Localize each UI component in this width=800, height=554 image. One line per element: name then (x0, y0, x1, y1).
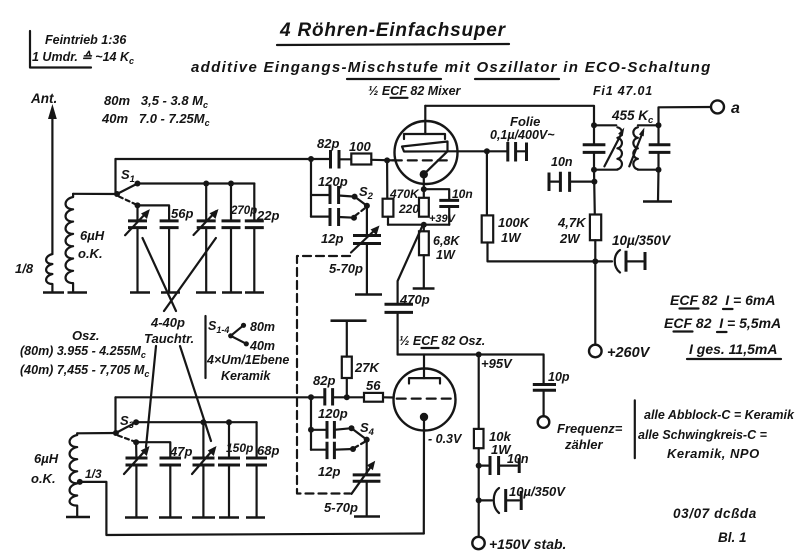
svg-text:12p: 12p (318, 464, 340, 479)
ground trimmer2 (196, 291, 216, 294)
switch S3 (113, 419, 139, 445)
wire osc cathode down (423, 417, 425, 534)
node B+ 100K (592, 258, 598, 264)
capacitor 120p osc (311, 421, 352, 439)
label Tauchtr. (144, 331, 194, 346)
title text (279, 20, 507, 41)
label 82p (317, 136, 339, 151)
label S3 (120, 413, 135, 431)
label 470p (399, 292, 430, 307)
tube V1b plate (409, 378, 440, 383)
terminal frequency counter (538, 416, 550, 428)
svg-text:6µH: 6µH (80, 228, 105, 243)
capacitor 150p (218, 458, 240, 517)
label +150V stab (489, 536, 566, 552)
ground osc trimmer2 (192, 516, 215, 519)
label 120p osc (318, 406, 348, 421)
svg-text:S2: S2 (359, 184, 374, 202)
label S4 (360, 420, 375, 438)
svg-text:+95V: +95V (481, 356, 513, 371)
svg-text:470K: 470K (389, 187, 420, 201)
tube V1a cathode (420, 151, 448, 178)
Feintrieb box text line1 (45, 33, 127, 47)
capacitor 10u/350V (595, 250, 645, 273)
tube V1b plate lead (423, 355, 425, 379)
label +260V (607, 345, 651, 361)
label 82p osc (313, 373, 335, 388)
capacitor 120p (311, 186, 355, 204)
svg-text:- 0.3V: - 0.3V (428, 432, 463, 446)
svg-text:120p: 120p (318, 174, 348, 189)
wire S2 branch vertical (310, 159, 312, 217)
IF secondary coil (633, 127, 638, 169)
svg-text:ECF 82 I = 5,5mA: ECF 82 I = 5,5mA (664, 315, 781, 331)
wire IF secondary ground (657, 170, 660, 201)
trimmer capacitor osc no1 (124, 446, 150, 517)
pointer line trimmer1 to label (143, 238, 177, 311)
resistor 100 (351, 154, 371, 165)
label a (731, 100, 740, 117)
label 68p (257, 443, 279, 458)
label 4xUm/1Ebene (206, 353, 289, 367)
node rail osc trimmer2 (200, 419, 206, 425)
svg-text:½ ECF 82 Mixer: ½ ECF 82 Mixer (368, 84, 462, 98)
label 4,7K 2W (557, 215, 587, 246)
ground 56p (161, 291, 180, 294)
svg-text:(80m) 3.955 - 4.255Mc: (80m) 3.955 - 4.255Mc (20, 344, 146, 360)
wire L1 top to S1 (73, 193, 117, 195)
svg-text:2W: 2W (559, 231, 581, 246)
label 10u stab (509, 484, 566, 499)
main top wire (116, 158, 331, 160)
ground trimmer1 (130, 291, 150, 294)
label ECF82 I=6mA (670, 292, 775, 309)
svg-text:22p: 22p (256, 208, 279, 223)
node Folie junction (484, 148, 490, 154)
tube V1a plate lead (424, 106, 426, 134)
svg-text:½ ECF 82 Osz.: ½ ECF 82 Osz. (399, 334, 485, 348)
capacitor 68p (246, 458, 267, 517)
svg-text:40m 7.0 - 7.25Mc: 40m 7.0 - 7.25Mc (101, 111, 210, 128)
node L2 tap 1/3 (77, 479, 83, 485)
IF transformer Fi1 primary cap (583, 125, 606, 169)
trimmer capacitor 4-40p no1 (125, 209, 150, 292)
terminal +150V (472, 537, 484, 549)
label 270p (230, 205, 257, 217)
svg-text:S3: S3 (120, 413, 135, 431)
label 0,1u/400V (490, 128, 555, 142)
label 1/2 ECF 82 Osz. (399, 334, 485, 348)
node 10n stab (476, 463, 482, 469)
label 12p osc (318, 464, 340, 479)
label 6uH osc (34, 451, 59, 466)
label 80m legend (250, 320, 275, 334)
svg-text:6µH: 6µH (34, 451, 59, 466)
svg-text:Osz.: Osz. (72, 328, 99, 343)
label Fi1 47.01 (593, 84, 653, 98)
wire top rail down to S1 (114, 159, 116, 194)
label 80m osc range (20, 344, 146, 360)
ground 6,8K (413, 287, 435, 290)
label S1-4 (208, 319, 229, 335)
ground 47p (159, 516, 182, 519)
IF secondary top bar (638, 122, 662, 128)
svg-text:Feintrieb 1:36: Feintrieb 1:36 (45, 33, 127, 47)
svg-text:270p: 270p (230, 205, 257, 217)
label 10k 1W (489, 429, 512, 457)
label S2 (359, 184, 374, 202)
wire plate to IF primary (425, 106, 594, 126)
dashed enclosure padder section (297, 256, 350, 494)
ground L2 (66, 516, 90, 519)
label 220 (398, 202, 419, 216)
svg-text:(40m) 7,455 - 7,705 Mc: (40m) 7,455 - 7,705 Mc (20, 363, 149, 379)
IF secondary cap (649, 125, 671, 169)
svg-text:220: 220 (398, 202, 419, 216)
label 1/8 (15, 261, 34, 276)
svg-text:10n: 10n (452, 187, 473, 201)
svg-text:0,1µ/400V~: 0,1µ/400V~ (490, 128, 555, 142)
tube V1b osc envelope (394, 369, 456, 431)
label 10n stab (507, 452, 529, 466)
IF secondary tuning arrow (629, 128, 644, 167)
ground 270p (222, 291, 242, 294)
note line3 (667, 446, 760, 461)
label o.K. osc (31, 471, 56, 486)
wire S1 40m to trimmer1 (136, 205, 138, 221)
wire B+ down (594, 261, 596, 344)
Feintrieb box text line2 (32, 50, 134, 66)
wire S3 40m to 47p (136, 442, 170, 458)
svg-text:120p: 120p (318, 406, 348, 421)
label 5-70p lower (324, 500, 358, 515)
switch S2 (351, 194, 370, 221)
tube V1a screen (402, 142, 448, 152)
svg-text:47p: 47p (169, 444, 192, 459)
svg-text:1/8: 1/8 (15, 261, 34, 276)
svg-text:1 Umdr. ≙ ~14 Kc: 1 Umdr. ≙ ~14 Kc (32, 50, 134, 66)
node 27K junction (344, 394, 350, 400)
node mixer grid (384, 157, 390, 163)
IF secondary bottom bar (638, 167, 662, 173)
svg-text:o.K.: o.K. (31, 471, 56, 486)
note line1 (644, 408, 795, 422)
svg-text:100K: 100K (498, 215, 531, 230)
label 22p (256, 208, 279, 223)
capacitor 47p (160, 458, 182, 517)
capacitor 10n IF (549, 172, 594, 192)
svg-text:10µ/350V: 10µ/350V (612, 233, 671, 248)
svg-text:1/3: 1/3 (85, 467, 102, 481)
svg-text:S1: S1 (121, 167, 135, 185)
wire S4 to trimmer (366, 440, 368, 475)
label +39V (429, 213, 457, 225)
label 470K (389, 187, 420, 201)
capacitor 12p (311, 208, 354, 226)
label 56 (366, 378, 381, 393)
label 5-70p upper (329, 261, 363, 276)
wire tap to bottom rail (80, 482, 424, 535)
label 12p (321, 231, 343, 246)
wire S3 80m rail (136, 421, 257, 423)
wire cathode tap to Folie (448, 150, 508, 152)
switch S4 (349, 425, 370, 452)
node rail C-trim2 (203, 181, 209, 187)
note line2 (638, 428, 768, 442)
tube V1b cathode (420, 413, 428, 421)
svg-text:alle Schwingkreis-C =: alle Schwingkreis-C = (638, 428, 768, 442)
label 40m legend (249, 339, 275, 353)
capacitor 10n stab (479, 456, 520, 475)
label 100 (349, 139, 371, 154)
svg-text:1W: 1W (436, 248, 456, 262)
note bar (634, 400, 636, 458)
trimmer capacitor 5-70p upper (351, 226, 381, 295)
svg-text:+150V stab.: +150V stab. (489, 536, 566, 552)
wire rail to 22p (253, 184, 255, 221)
label 1/3 tap (85, 467, 102, 481)
wire 82p to R100 (339, 158, 351, 160)
svg-text:03/07 dcßda: 03/07 dcßda (673, 506, 757, 521)
label 40m range (101, 111, 210, 128)
label 40m osc range (20, 363, 149, 379)
label 10p (548, 370, 570, 384)
wire osc grid line (116, 396, 325, 398)
svg-text:150p: 150p (226, 441, 253, 455)
resistor 10k (474, 355, 484, 538)
svg-text:ECF 82 I = 6mA: ECF 82 I = 6mA (670, 292, 775, 308)
inductor L1 6uH (66, 194, 74, 292)
ground trimmer S4 (354, 515, 380, 518)
svg-text:470p: 470p (399, 292, 430, 307)
svg-text:56p: 56p (171, 206, 193, 221)
svg-text:+39V: +39V (429, 213, 457, 225)
svg-text:10p: 10p (548, 370, 570, 384)
wire cathode down (423, 174, 425, 198)
terminal a (711, 100, 724, 113)
label 47p (169, 444, 192, 459)
label 6uH (80, 228, 105, 243)
svg-text:80m: 80m (250, 320, 275, 334)
node rail 270p (228, 181, 234, 187)
svg-text:4-40p: 4-40p (150, 315, 185, 330)
label 27K (354, 360, 380, 375)
svg-text:Folie: Folie (510, 114, 540, 129)
svg-text:100: 100 (349, 139, 371, 154)
label 56p (171, 206, 193, 221)
wire rail to 270p (230, 184, 232, 221)
svg-text:4×Um/1Ebene: 4×Um/1Ebene (206, 353, 289, 367)
IF primary coil (617, 127, 622, 169)
svg-text:10n: 10n (507, 452, 529, 466)
capacitor 10u stab (479, 488, 522, 513)
resistor 4,7K (590, 215, 601, 262)
wire node to 470p (398, 225, 423, 304)
label Folie (510, 114, 540, 129)
trimmer capacitor 4-40p no2 (194, 209, 219, 292)
resistor 27K (342, 321, 352, 397)
svg-text:Bl. 1: Bl. 1 (718, 530, 747, 545)
label 80m range (104, 93, 208, 110)
capacitor 56p (160, 221, 179, 292)
label 10n cathode (452, 187, 473, 201)
ground antenna coil (43, 291, 64, 294)
wire secondary to terminal a (659, 107, 712, 125)
capacitor 12p osc (311, 442, 353, 459)
svg-text:80m 3,5 - 3.8 Mc: 80m 3,5 - 3.8 Mc (104, 93, 208, 110)
capacitor 10p counter (533, 385, 556, 417)
wire S3 40m to osc trimmer1 (135, 442, 137, 458)
svg-text:I ges. 11,5mA: I ges. 11,5mA (689, 341, 777, 357)
svg-text:5-70p: 5-70p (324, 500, 358, 515)
svg-text:6,8K: 6,8K (433, 234, 460, 248)
svg-text:68p: 68p (257, 443, 279, 458)
capacitor 10n cathode (424, 189, 459, 225)
label +95V (481, 356, 513, 371)
ground IF secondary (643, 200, 672, 203)
pointer line trimmer2 to label (164, 238, 216, 311)
ground 22p (245, 291, 264, 294)
svg-text:5-70p: 5-70p (329, 261, 363, 276)
label Frequenzzaehler (557, 421, 623, 452)
wire rail to 68p (256, 422, 258, 458)
subtitle underline Mischstufe (347, 78, 441, 80)
label ECF82 I=5,5mA (664, 315, 781, 332)
label 455 Kc (611, 108, 654, 126)
label 10u/350V (612, 233, 671, 248)
capacitor 82p osc (325, 388, 364, 405)
tube V1a mixer envelope (395, 121, 458, 184)
svg-text:455 Kc: 455 Kc (611, 108, 654, 126)
svg-text:S1-4: S1-4 (208, 319, 229, 335)
tube V1b grid dashed (397, 398, 452, 400)
wire rail to trimmer2 (205, 184, 207, 221)
capacitor 22p (245, 221, 264, 292)
capacitor 270p (222, 221, 241, 292)
antenna arrow (48, 104, 57, 254)
label -0.3V (428, 432, 463, 446)
wire osc coil to S3 (77, 432, 116, 434)
title underline (277, 44, 509, 45)
label Bl. 1 (718, 530, 747, 545)
trimmer capacitor osc no2 (192, 446, 217, 517)
svg-text:56: 56 (366, 378, 381, 393)
capacitor 470p (385, 304, 414, 354)
svg-text:+260V: +260V (607, 345, 651, 361)
label 120p (318, 174, 348, 189)
subtitle text (191, 59, 712, 76)
wire S1 80m rail (138, 182, 255, 184)
tube V1a grid dashed (393, 159, 447, 161)
label 4-40p (150, 315, 185, 330)
switch S1 (114, 181, 141, 209)
label 100K 1W (498, 215, 531, 245)
svg-text:10µ/350V: 10µ/350V (509, 484, 566, 499)
label date signature (673, 506, 757, 521)
svg-text:Frequenz=: Frequenz= (557, 421, 623, 436)
label 10n IF (551, 155, 573, 169)
svg-text:additive Eingangs-Mischstufe m: additive Eingangs-Mischstufe mit Oszilla… (191, 59, 712, 76)
IF primary tuning arrow (604, 128, 624, 167)
resistor 220 (419, 198, 429, 217)
legend bar S1-4 (204, 316, 206, 378)
svg-text:o.K.: o.K. (78, 246, 103, 261)
terminal +260V (589, 345, 602, 358)
svg-text:Tauchtr.: Tauchtr. (144, 331, 194, 346)
label Ant. (30, 91, 57, 106)
svg-text:40m: 40m (249, 339, 275, 353)
resistor 6,8K (419, 225, 429, 288)
svg-text:Ant.: Ant. (30, 91, 57, 106)
ground trimmer S2 (355, 293, 382, 296)
wire osc grid rail down to S3 (114, 397, 116, 433)
tube V1a plate (404, 134, 445, 139)
svg-text:82p: 82p (317, 136, 339, 151)
legend fork (228, 323, 249, 347)
svg-text:12p: 12p (321, 231, 343, 246)
antenna coupling coil 1/8 (46, 254, 52, 292)
wire rail to osc trimmer2 (202, 422, 204, 458)
subtitle underline Oszillator (475, 78, 559, 80)
node cathode 10n (421, 186, 427, 192)
node main wire / S2 branch (308, 156, 314, 162)
capacitor Folie 0,1u (508, 142, 527, 162)
wire S2 to trimmer (366, 206, 368, 236)
pointer line label to osc trimmer2 (180, 346, 211, 441)
svg-text:27K: 27K (354, 360, 380, 375)
svg-text:a: a (731, 100, 740, 117)
label 6,8K 1W (433, 234, 460, 262)
resistor 470K (383, 160, 394, 224)
svg-text:4 Röhren-Einfachsuper: 4 Röhren-Einfachsuper (279, 20, 507, 41)
svg-text:zähler: zähler (564, 437, 604, 452)
node 10u stab (476, 497, 482, 503)
node 10n B+ (591, 179, 597, 185)
ground 150p (219, 516, 239, 519)
IF primary bottom bar (591, 167, 617, 173)
node osc grid 82p left (308, 394, 314, 400)
wire +39V node (388, 224, 449, 226)
svg-text:Keramik: Keramik (221, 369, 271, 383)
terminal bar 27K top (331, 319, 367, 322)
wire rail to 150p (228, 422, 230, 458)
resistor 56 (364, 393, 394, 402)
wire S1 40m to 56p (138, 205, 170, 221)
capacitor 82p grid (331, 150, 340, 169)
ground 68p (246, 516, 265, 519)
wire IF to 4,7K (593, 170, 596, 215)
label I ges 11,5mA (687, 341, 781, 359)
label 150p (226, 441, 253, 455)
svg-text:82p: 82p (313, 373, 335, 388)
node +39V (421, 222, 427, 228)
resistor 100K (482, 151, 596, 261)
label Osz. (72, 328, 99, 343)
pointer line label to osc trimmer1 (146, 346, 156, 447)
IF primary top bar (591, 122, 616, 128)
label 1/2 ECF 82 Mixer (368, 84, 462, 98)
label o.K. (78, 246, 103, 261)
wire +95V rail (398, 355, 544, 385)
svg-text:10n: 10n (551, 155, 573, 169)
ground L1 (68, 291, 88, 294)
Feintrieb box frame (30, 31, 91, 68)
svg-text:4,7K: 4,7K (557, 215, 587, 230)
svg-text:Fi1 47.01: Fi1 47.01 (593, 84, 653, 98)
node +95V feeder (476, 352, 482, 358)
node rail 150p (226, 419, 232, 425)
inductor L2 6uH osc (70, 433, 78, 516)
